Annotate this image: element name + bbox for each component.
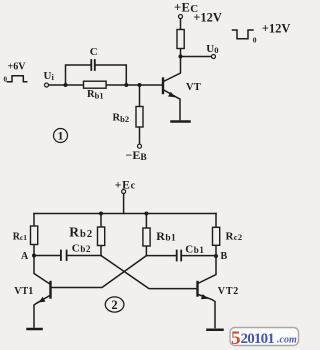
svg-text:Cb2: Cb2 [72,242,91,254]
svg-text:VT: VT [186,82,201,93]
svg-text:+12V: +12V [193,10,222,24]
svg-text:0: 0 [4,76,8,84]
svg-text:Ui: Ui [44,70,55,82]
svg-text:0: 0 [253,36,257,45]
svg-text:B: B [221,251,228,262]
svg-text:Rb2: Rb2 [69,225,93,240]
svg-text:1: 1 [58,129,64,143]
svg-text:Rb1: Rb1 [156,229,176,243]
svg-text:C: C [90,46,98,58]
svg-text:U0: U0 [206,43,218,55]
svg-text:Cb1: Cb1 [185,243,204,255]
svg-text:+12V: +12V [262,21,291,35]
svg-text:5: 5 [231,328,241,349]
svg-text:Rb2: Rb2 [113,113,130,125]
svg-text:.com: .com [277,335,297,346]
svg-text:Rb1: Rb1 [87,89,104,101]
svg-text:+Ec: +Ec [115,179,136,191]
svg-text:−EB: −EB [126,148,148,163]
svg-text:A: A [21,251,29,262]
svg-text:VT2: VT2 [218,286,239,297]
svg-text:20101: 20101 [241,331,275,347]
svg-text:Rc1: Rc1 [13,231,28,242]
svg-text:+6V: +6V [8,61,27,72]
svg-text:Rc2: Rc2 [226,230,243,242]
svg-text:VT1: VT1 [14,286,33,297]
svg-text:2: 2 [111,298,117,312]
